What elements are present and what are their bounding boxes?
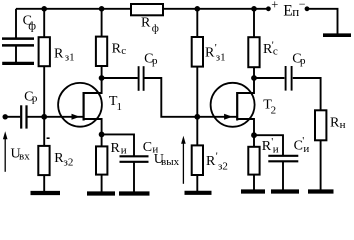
svg-text:c: c [273,46,278,58]
wire Rcp to drain junction [253,67,255,78]
label Rc [112,41,127,57]
svg-text:R: R [112,41,122,56]
wire top rail left segment [16,8,131,10]
wire Rcp column top [253,9,255,37]
svg-text:н: н [340,119,346,131]
wire coupling cap 1 left [102,77,138,79]
supply terminal dot minus [305,6,310,11]
svg-text:и: и [121,145,127,157]
label Rz2p [206,151,228,173]
label Rn [330,116,346,131]
svg-text:ф: ф [152,23,159,35]
wire Rz1p to gate junction [196,67,198,146]
wire Rz2p to ground [196,175,198,192]
junction gate T1 node [41,114,47,120]
svg-text:E: E [283,3,292,20]
wire coupling cap 1 right jog down to T2 gate [144,78,237,117]
wire source junction 2 to Rip [253,135,255,147]
wire Rz1p column top [196,9,198,37]
wire top rail right segment to ground [307,9,338,34]
wire top rail mid segment [163,8,268,10]
arrow Uvyx [181,136,186,184]
label Cf [23,13,37,32]
junction rail-Rz1p [195,6,201,12]
wire coupling cap 2 left [254,77,284,79]
ground under Cip [271,189,299,193]
wire Rc to drain junction [101,66,103,78]
supply terminal dot plus [266,6,271,11]
svg-text:R: R [54,47,64,62]
input terminal dot [2,114,7,119]
wire source T1 lead [84,119,102,134]
transistor T1 [58,83,102,127]
ground under Cf [2,62,34,65]
ground under Rz2p [185,191,212,195]
wire Rz1 to input junction [43,66,45,146]
label T2 [263,98,276,117]
label Rz1 [54,47,75,64]
label Rcp [263,40,278,58]
wire Cf stub upper [15,9,17,39]
capacitor Cf plates [2,39,34,46]
svg-text:з1: з1 [65,52,75,64]
label Uvyx [154,152,180,168]
wire Ci to ground [133,162,135,192]
svg-text:+: + [271,0,278,11]
svg-text:з2: з2 [64,157,74,169]
svg-text:R: R [206,154,216,169]
junction drain T1 node [99,75,105,81]
ground top right [323,33,351,37]
wire Rc column top [101,9,103,37]
resistor Rz1 [39,37,50,66]
junction gate T2 node [194,114,200,120]
svg-text:C: C [143,140,152,155]
svg-text:−: − [299,0,306,11]
capacitor Ci plates [120,156,149,162]
resistor Rz2 [38,146,49,175]
junction source T2 node [251,132,257,138]
wire Cip to ground [282,162,284,191]
svg-text:и: и [303,143,309,155]
resistor Rn [315,110,326,140]
ground under Rn [308,189,334,193]
svg-text:ф: ф [28,19,36,33]
capacitor Cp input plates [21,105,26,128]
wire drain T1 lead [84,78,102,93]
wire Rn to ground [320,140,322,191]
stray tick on Rz2 wire [47,137,50,139]
capacitor Cp coupling 2 plates [286,66,292,91]
junction source T1 node [99,132,105,138]
label Cp input [24,89,38,104]
svg-text:R: R [330,116,340,131]
wire drain T2 lead [237,78,254,93]
resistor Rz2p [192,145,203,175]
svg-text:c: c [121,45,126,57]
label Cp coupling1 [144,52,158,67]
wire input terminal to cap [5,116,20,118]
label Rip [262,136,279,156]
label Rf [141,16,159,35]
svg-text:з2: з2 [218,161,228,173]
wire Rip to ground [253,175,255,191]
junction drain T2 node [251,75,257,81]
junction rail-Rcp [251,6,257,12]
svg-text:R: R [262,139,272,154]
ground under Ci [119,191,150,195]
svg-text:вых: вых [161,156,180,168]
svg-text:p: p [152,55,158,67]
junction rail-Rc [99,6,105,12]
ground under Ri [87,191,115,195]
label Rz1p [205,42,226,64]
arrow Uvx [3,131,8,172]
label Cip [294,135,310,155]
label Rz2 [54,151,73,169]
junction rail-Rz1 [41,6,47,12]
capacitor Cp coupling 1 plates [139,66,144,91]
wire Rz2 to ground [43,175,45,192]
transistor T2 [211,83,255,127]
svg-text:R: R [111,141,121,156]
resistor Rcp [248,37,259,67]
wire input cap to junction and gate of T1 [28,116,84,118]
svg-text:и: и [273,144,279,156]
wire Cip branch [254,135,283,155]
ground under Rip [241,189,265,193]
svg-text:R: R [205,46,215,61]
label Uvx [11,147,31,163]
ground under Rz2 [31,191,61,195]
label Cp coupling2 [292,52,306,67]
svg-text:R: R [141,16,151,31]
wire source junction to Ri [101,134,103,146]
resistor Rip [248,147,259,175]
resistor Rf horizontal [131,4,163,15]
wire Ci branch [102,134,134,156]
label T1 [109,94,122,113]
label Ri [111,141,127,157]
svg-text:2: 2 [271,105,277,117]
svg-text:вх: вх [19,151,30,163]
resistor Rz1p [192,37,203,67]
capacitor Cip plates [268,156,298,162]
label Ep with plus minus [271,0,306,20]
wire source T2 lead [237,119,254,135]
resistor Rc [96,37,107,66]
resistor Ri [96,146,107,174]
svg-text:1: 1 [117,101,123,113]
label Ci [143,140,159,156]
svg-text:p: p [32,92,38,104]
wire Rz1 column top [43,9,45,37]
wire coupling cap 2 right to Rn [293,78,321,110]
wire Ri to ground [101,175,103,192]
svg-text:p: p [300,55,306,67]
svg-text:з1: з1 [216,52,226,64]
wire Cf stub lower [15,46,17,63]
